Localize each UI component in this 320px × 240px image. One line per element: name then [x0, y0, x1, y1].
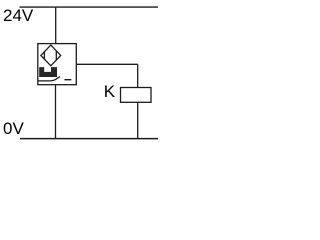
wire: 24V rail to sensor supply pin [55, 7, 57, 44]
sensor switch contact (movable arm) [38, 77, 60, 81]
svg-text:K: K [104, 82, 116, 101]
wire: sensor 0V pin to 0V rail [55, 85, 57, 139]
sensor switch fixed terminal dash [64, 79, 71, 81]
sensor diamond right chord [55, 51, 57, 61]
wire: sensor output to relay (vertical drop) [137, 64, 139, 87]
proximity sensor diamond symbol [41, 45, 61, 66]
sensor magnet symbol (solid U) [39, 67, 57, 77]
relay coil K body [121, 88, 152, 103]
proximity sensor B1 outline [38, 44, 77, 85]
svg-text:0V: 0V [3, 119, 24, 138]
wire: 0V supply rail [20, 138, 158, 140]
wire: relay coil to 0V rail [137, 102, 139, 138]
sensor diamond left chord [43, 51, 45, 59]
wire: +24V supply rail [20, 6, 159, 8]
wire: sensor output to relay (horizontal) [76, 63, 137, 65]
svg-text:24V: 24V [3, 6, 34, 25]
